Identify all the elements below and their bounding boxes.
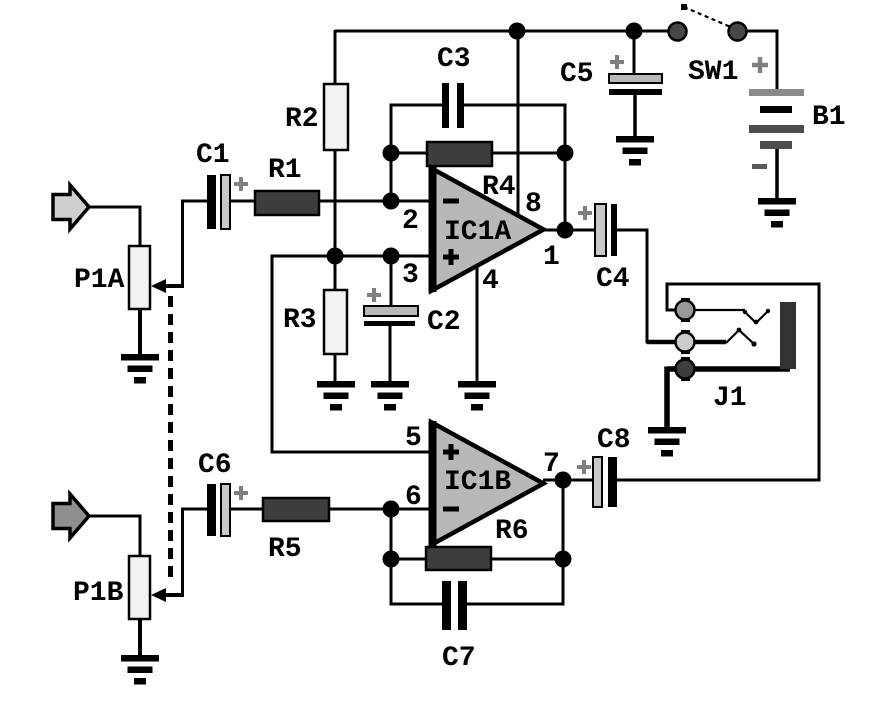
svg-text:IC1A: IC1A bbox=[444, 217, 511, 248]
svg-text:R5: R5 bbox=[268, 534, 302, 565]
svg-text:C4: C4 bbox=[596, 264, 630, 295]
svg-text:R1: R1 bbox=[268, 155, 302, 186]
svg-text:P1A: P1A bbox=[74, 265, 125, 296]
svg-text:4: 4 bbox=[482, 266, 499, 297]
svg-text:R4: R4 bbox=[482, 172, 516, 203]
svg-text:C8: C8 bbox=[597, 425, 631, 456]
svg-text:C2: C2 bbox=[427, 307, 461, 338]
svg-text:6: 6 bbox=[405, 482, 422, 513]
svg-text:C5: C5 bbox=[560, 59, 594, 90]
svg-text:IC1B: IC1B bbox=[444, 467, 511, 498]
svg-text:2: 2 bbox=[402, 206, 419, 237]
svg-text:3: 3 bbox=[402, 260, 419, 291]
svg-text:R2: R2 bbox=[285, 104, 319, 135]
svg-text:B1: B1 bbox=[812, 102, 846, 133]
svg-text:C1: C1 bbox=[196, 140, 230, 171]
svg-text:P1B: P1B bbox=[73, 578, 124, 609]
svg-text:8: 8 bbox=[525, 189, 542, 220]
svg-text:1: 1 bbox=[543, 242, 560, 273]
svg-text:C3: C3 bbox=[437, 44, 471, 75]
svg-text:7: 7 bbox=[543, 449, 560, 480]
svg-text:R6: R6 bbox=[495, 516, 529, 547]
svg-text:SW1: SW1 bbox=[688, 57, 738, 88]
svg-text:C7: C7 bbox=[442, 643, 476, 674]
svg-text:C6: C6 bbox=[198, 450, 232, 481]
svg-text:J1: J1 bbox=[713, 383, 747, 414]
svg-text:5: 5 bbox=[405, 423, 422, 454]
svg-text:R3: R3 bbox=[283, 305, 317, 336]
